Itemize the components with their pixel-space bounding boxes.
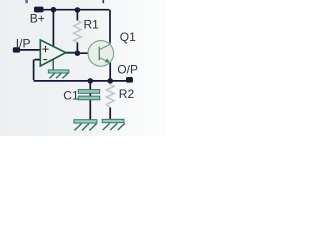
svg-text:O/P: O/P (117, 62, 138, 76)
svg-text:Q1: Q1 (120, 30, 136, 44)
svg-text:R1: R1 (84, 18, 100, 32)
svg-text:B+: B+ (30, 12, 45, 26)
svg-text:C1: C1 (63, 88, 79, 102)
svg-text:R2: R2 (119, 87, 135, 101)
svg-text:I/P: I/P (16, 36, 31, 50)
